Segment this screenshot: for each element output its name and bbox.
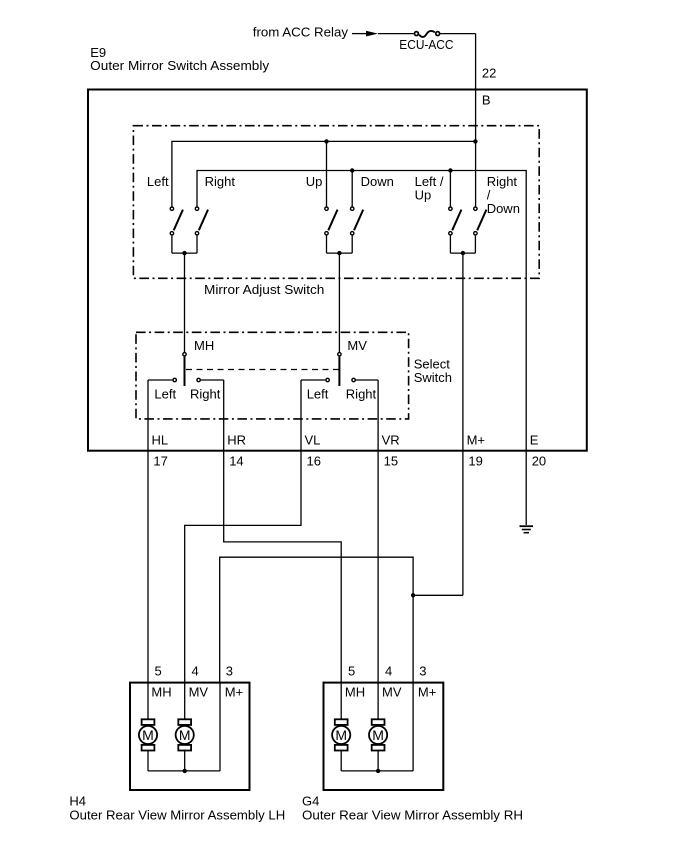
svg-text:MH: MH [151, 684, 171, 699]
svg-text:Right: Right [190, 387, 221, 402]
svg-text:22: 22 [482, 66, 496, 81]
svg-text:Down: Down [361, 174, 394, 189]
svg-text:H4: H4 [69, 794, 86, 809]
svg-text:Left: Left [154, 387, 176, 402]
svg-text:14: 14 [229, 454, 243, 469]
svg-text:ECU-ACC: ECU-ACC [399, 37, 453, 52]
svg-text:HL: HL [152, 433, 169, 448]
svg-text:M+: M+ [225, 684, 243, 699]
svg-text:B: B [482, 93, 491, 108]
svg-text:Up: Up [306, 174, 323, 189]
svg-text:4: 4 [192, 663, 199, 678]
svg-text:MV: MV [347, 338, 367, 353]
svg-text:Right: Right [346, 387, 377, 402]
svg-text:Up: Up [415, 188, 432, 203]
svg-text:Right: Right [205, 174, 236, 189]
svg-text:HR: HR [227, 433, 246, 448]
svg-text:3: 3 [419, 663, 426, 678]
svg-text:5: 5 [348, 663, 355, 678]
svg-text:M: M [142, 727, 154, 743]
svg-text:Right: Right [487, 174, 518, 189]
svg-text:MV: MV [382, 684, 402, 699]
svg-text:Down: Down [487, 201, 520, 216]
svg-text:from ACC Relay: from ACC Relay [253, 25, 349, 40]
svg-text:E: E [530, 433, 539, 448]
svg-text:19: 19 [468, 454, 482, 469]
svg-text:Outer Rear View Mirror Assembl: Outer Rear View Mirror Assembly LH [69, 808, 285, 823]
svg-text:VL: VL [305, 433, 321, 448]
svg-text:16: 16 [307, 454, 321, 469]
svg-text:15: 15 [384, 454, 398, 469]
svg-text:MV: MV [189, 684, 209, 699]
svg-text:Switch: Switch [414, 370, 452, 385]
svg-text:MH: MH [194, 338, 214, 353]
svg-text:M: M [372, 727, 384, 743]
svg-text:Mirror Adjust Switch: Mirror Adjust Switch [204, 282, 324, 297]
svg-text:M+: M+ [467, 433, 485, 448]
svg-text:Left: Left [147, 174, 169, 189]
svg-text:4: 4 [385, 663, 392, 678]
svg-text:Outer Mirror Switch Assembly: Outer Mirror Switch Assembly [90, 58, 270, 73]
svg-text:17: 17 [153, 454, 167, 469]
svg-text:5: 5 [155, 663, 162, 678]
svg-text:VR: VR [382, 433, 400, 448]
svg-text:M: M [335, 727, 347, 743]
svg-text:G4: G4 [302, 794, 319, 809]
svg-text:M+: M+ [418, 684, 436, 699]
svg-text:MH: MH [345, 684, 365, 699]
svg-text:20: 20 [532, 454, 546, 469]
svg-text:Outer Rear View Mirror Assembl: Outer Rear View Mirror Assembly RH [302, 808, 523, 823]
svg-text:3: 3 [226, 663, 233, 678]
svg-text:M: M [179, 727, 191, 743]
svg-text:Left: Left [307, 387, 329, 402]
